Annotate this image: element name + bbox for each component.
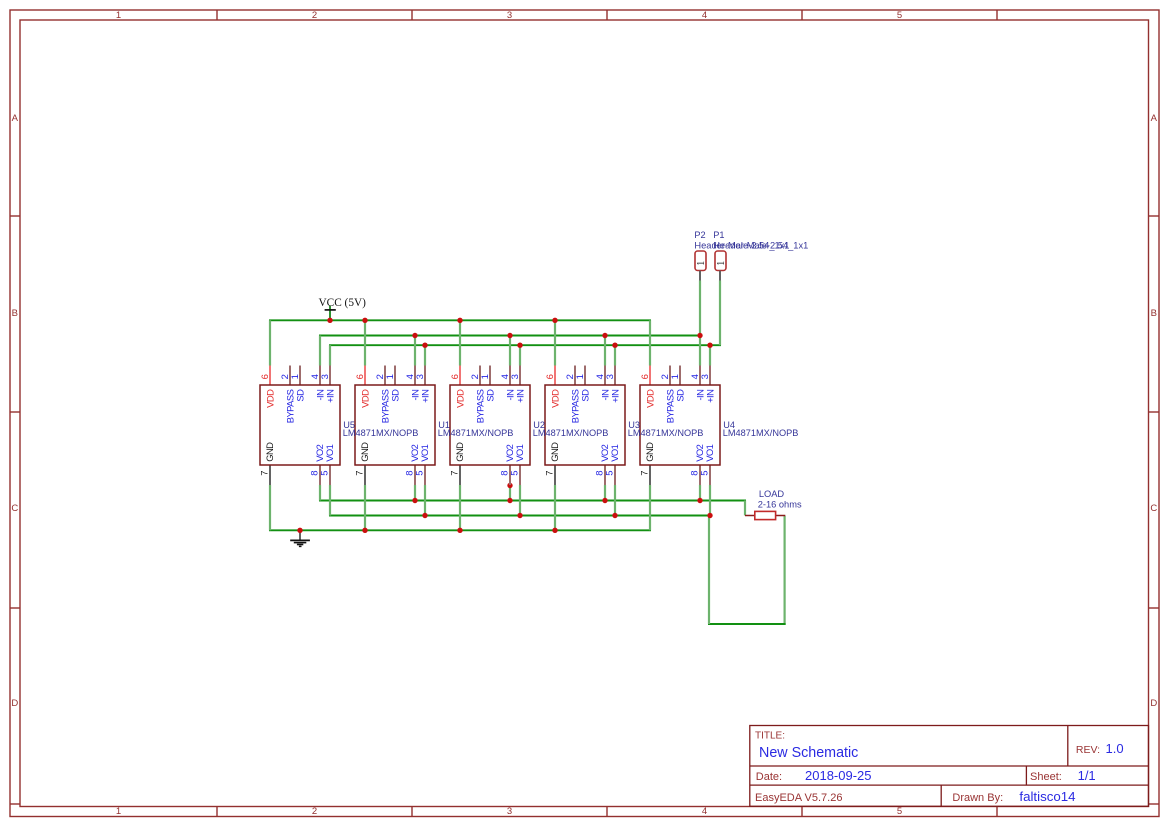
- pin 6 VDD: [260, 374, 275, 408]
- svg-text:5: 5: [897, 806, 902, 817]
- svg-text:7: 7: [639, 471, 650, 476]
- svg-text:+IN: +IN: [609, 390, 620, 403]
- wire -IN drop chip4: [604, 336, 606, 366]
- svg-text:VDD: VDD: [264, 389, 275, 408]
- wire VO1 drop chip1: [329, 485, 331, 516]
- svg-text:A: A: [1151, 113, 1158, 124]
- pin 7 GND: [449, 442, 465, 476]
- pin 7 GND: [259, 442, 275, 476]
- pin 2 BYPASS: [280, 374, 295, 423]
- pin 4 -IN: [690, 374, 705, 400]
- wire +IN drop chip5: [709, 345, 711, 365]
- pin 8 VO2: [689, 444, 705, 475]
- resistor LOAD 2-16 ohms: [745, 489, 802, 520]
- svg-text:6: 6: [260, 374, 271, 379]
- svg-text:D: D: [1150, 698, 1157, 709]
- junction (510,500): [507, 498, 512, 503]
- wire load return up to VO1 rail: [708, 516, 710, 625]
- svg-text:1: 1: [575, 374, 586, 379]
- svg-text:EasyEDA V5.7.26: EasyEDA V5.7.26: [755, 792, 842, 804]
- svg-text:6: 6: [640, 374, 651, 379]
- junction (460,320): [457, 318, 462, 323]
- pin 5 VO1: [604, 444, 620, 475]
- wire VO1 rail: [329, 515, 711, 517]
- svg-text:SD: SD: [294, 389, 305, 402]
- wire GND drop chip5: [649, 485, 651, 530]
- svg-text:LM4871MX/NOPB: LM4871MX/NOPB: [628, 428, 704, 438]
- svg-text:Sheet:: Sheet:: [1030, 771, 1062, 783]
- svg-text:TITLE:: TITLE:: [755, 731, 785, 742]
- junction (710,345): [707, 343, 712, 348]
- pin 1 SD: [385, 374, 400, 402]
- wire -IN drop chip2: [414, 336, 416, 366]
- wire VDD drop chip2: [364, 320, 366, 365]
- svg-text:SD: SD: [674, 389, 685, 402]
- wire VO2 drop chip5: [699, 485, 701, 501]
- svg-text:B: B: [12, 308, 18, 319]
- pin 7 GND: [544, 442, 560, 476]
- svg-text:3: 3: [510, 374, 521, 379]
- svg-text:SD: SD: [484, 389, 495, 402]
- pin 5 VO1: [319, 444, 335, 475]
- wire VDD drop chip5: [649, 320, 651, 365]
- svg-text:5: 5: [414, 471, 425, 476]
- pin 8 VO2: [594, 444, 610, 475]
- pin 1 SD: [575, 374, 590, 402]
- junction (510,336): [507, 333, 512, 338]
- wire header P1 to +IN rail: [719, 281, 721, 346]
- svg-text:2018-09-25: 2018-09-25: [805, 768, 872, 783]
- svg-text:5: 5: [604, 471, 615, 476]
- junction (615,345): [612, 343, 617, 348]
- svg-text:VO1: VO1: [609, 444, 620, 461]
- wire +IN drop chip4: [614, 345, 616, 365]
- svg-text:3: 3: [507, 806, 512, 817]
- junction (300,530): [297, 528, 302, 533]
- pin 5 VO1: [509, 444, 525, 475]
- junction (365,320): [362, 318, 367, 323]
- IC U1 LM4871MX/NOPB: [354, 366, 435, 486]
- pin 2 BYPASS: [470, 374, 485, 423]
- power VCC symbol: [319, 297, 367, 320]
- svg-text:VDD: VDD: [644, 389, 655, 408]
- junction (605,500): [602, 498, 607, 503]
- junction (555,530): [552, 528, 557, 533]
- pin 8 VO2: [404, 444, 420, 475]
- pin 3 +IN: [320, 374, 335, 403]
- svg-text:1: 1: [716, 261, 727, 266]
- svg-text:3: 3: [700, 374, 711, 379]
- pin 3 +IN: [415, 374, 430, 403]
- svg-text:5: 5: [897, 10, 902, 21]
- wire -IN rail: [319, 335, 701, 337]
- wire VDD drop chip4: [554, 320, 556, 365]
- svg-text:1: 1: [116, 10, 121, 21]
- junction (700,500): [697, 498, 702, 503]
- svg-text:REV:: REV:: [1076, 744, 1100, 756]
- pin 2 BYPASS: [375, 374, 390, 423]
- connector P2 Header-Male-2.54_1x1: [694, 230, 789, 281]
- svg-text:1: 1: [480, 374, 491, 379]
- wire VDD drop chip1: [269, 320, 271, 365]
- svg-text:A: A: [12, 113, 19, 124]
- pin 2 BYPASS: [565, 374, 580, 423]
- svg-text:2: 2: [312, 10, 317, 21]
- wire VO2 drop chip2: [414, 485, 416, 501]
- wire GND drop chip4: [554, 485, 556, 530]
- svg-text:5: 5: [319, 471, 330, 476]
- pin 8 VO2: [499, 444, 515, 475]
- pin 6 VDD: [355, 374, 370, 408]
- wire +IN drop chip1: [329, 345, 331, 365]
- junction (330,320): [327, 318, 332, 323]
- svg-text:1: 1: [385, 374, 396, 379]
- svg-text:VDD: VDD: [454, 389, 465, 408]
- svg-text:3: 3: [605, 374, 616, 379]
- svg-text:B: B: [1151, 308, 1157, 319]
- wire VO2 rail to LOAD left: [744, 501, 746, 516]
- junction (510,486): [507, 483, 512, 488]
- svg-text:3: 3: [415, 374, 426, 379]
- wire VO1 drop chip3: [519, 485, 521, 516]
- svg-text:6: 6: [355, 374, 366, 379]
- pin 5 VO1: [414, 444, 430, 475]
- wire VCC rail net VDD: [269, 319, 651, 321]
- wire VO1 drop chip5: [709, 485, 711, 516]
- svg-text:6: 6: [545, 374, 556, 379]
- wire +IN rail: [329, 344, 721, 346]
- svg-text:+IN: +IN: [324, 390, 335, 403]
- svg-text:7: 7: [259, 471, 270, 476]
- ground symbol: [290, 530, 310, 546]
- title block: [750, 726, 1149, 807]
- junction (460,530): [457, 528, 462, 533]
- svg-text:C: C: [11, 503, 18, 514]
- svg-text:New Schematic: New Schematic: [759, 745, 858, 761]
- svg-text:Header-Male-2.54_1x1: Header-Male-2.54_1x1: [713, 241, 808, 251]
- pin 6 VDD: [545, 374, 560, 408]
- pin 7 GND: [354, 442, 370, 476]
- svg-text:GND: GND: [264, 442, 275, 462]
- pin 4 -IN: [310, 374, 325, 400]
- svg-text:VO1: VO1: [324, 444, 335, 461]
- svg-text:C: C: [1150, 503, 1157, 514]
- IC U2 LM4871MX/NOPB: [449, 366, 530, 486]
- svg-text:1: 1: [696, 261, 707, 266]
- svg-text:1: 1: [116, 806, 121, 817]
- svg-text:VO1: VO1: [704, 444, 715, 461]
- wire -IN drop chip1: [319, 336, 321, 366]
- wire VO2 drop chip1: [319, 485, 321, 501]
- wire VO2 rail: [319, 500, 746, 502]
- svg-text:GND: GND: [644, 442, 655, 462]
- svg-text:+IN: +IN: [704, 390, 715, 403]
- svg-text:7: 7: [544, 471, 555, 476]
- junction (425,345): [422, 343, 427, 348]
- wire -IN drop chip5: [699, 336, 701, 366]
- svg-text:7: 7: [354, 471, 365, 476]
- IC U5 LM4871MX/NOPB: [259, 366, 340, 486]
- svg-text:5: 5: [509, 471, 520, 476]
- junction (605,336): [602, 333, 607, 338]
- pin 1 SD: [480, 374, 495, 402]
- junction (520,516): [517, 513, 522, 518]
- svg-text:VO1: VO1: [514, 444, 525, 461]
- pin 5 VO1: [699, 444, 715, 475]
- svg-text:P1: P1: [713, 230, 724, 240]
- svg-text:2: 2: [312, 806, 317, 817]
- svg-text:Date:: Date:: [756, 771, 782, 783]
- svg-text:+IN: +IN: [419, 390, 430, 403]
- wire -IN drop chip3: [509, 336, 511, 366]
- connector P1 Header-Male-2.54_1x1: [713, 230, 808, 281]
- wire load return bottom: [708, 623, 786, 625]
- pin 7 GND: [639, 442, 655, 476]
- svg-text:SD: SD: [389, 389, 400, 402]
- pin 4 -IN: [405, 374, 420, 400]
- junction (710,516): [707, 513, 712, 518]
- pin 3 +IN: [605, 374, 620, 403]
- svg-text:SD: SD: [579, 389, 590, 402]
- svg-text:1: 1: [670, 374, 681, 379]
- junction (615,516): [612, 513, 617, 518]
- svg-text:GND: GND: [359, 442, 370, 462]
- svg-text:1: 1: [290, 374, 301, 379]
- wire GND drop chip2: [364, 485, 366, 530]
- pin 6 VDD: [450, 374, 465, 408]
- wire VO1 drop chip2: [424, 485, 426, 516]
- wire +IN drop chip3: [519, 345, 521, 365]
- pin 8 VO2: [309, 444, 325, 475]
- svg-text:VDD: VDD: [359, 389, 370, 408]
- svg-text:LM4871MX/NOPB: LM4871MX/NOPB: [533, 428, 609, 438]
- junction (425,516): [422, 513, 427, 518]
- pin 1 SD: [670, 374, 685, 402]
- svg-text:4: 4: [702, 10, 707, 21]
- svg-text:GND: GND: [549, 442, 560, 462]
- pin 2 BYPASS: [660, 374, 675, 423]
- svg-text:Drawn By:: Drawn By:: [952, 792, 1003, 804]
- svg-text:4: 4: [702, 806, 707, 817]
- svg-text:GND: GND: [454, 442, 465, 462]
- svg-text:1/1: 1/1: [1078, 768, 1096, 783]
- svg-text:3: 3: [320, 374, 331, 379]
- svg-text:1.0: 1.0: [1106, 741, 1124, 756]
- junction (415,500): [412, 498, 417, 503]
- wire GND drop chip1: [269, 485, 271, 530]
- junction (365,530): [362, 528, 367, 533]
- wire GND drop chip3: [459, 485, 461, 530]
- wire header P2 to -IN rail: [699, 281, 701, 336]
- wire LOAD right down: [783, 516, 785, 625]
- svg-text:5: 5: [699, 471, 710, 476]
- svg-text:VCC (5V): VCC (5V): [319, 297, 367, 309]
- pin 3 +IN: [510, 374, 525, 403]
- svg-text:LOAD: LOAD: [759, 489, 785, 499]
- wire VDD drop chip3: [459, 320, 461, 365]
- svg-text:LM4871MX/NOPB: LM4871MX/NOPB: [723, 428, 799, 438]
- svg-text:VDD: VDD: [549, 389, 560, 408]
- pin 1 SD: [290, 374, 305, 402]
- pin 6 VDD: [640, 374, 655, 408]
- svg-text:3: 3: [507, 10, 512, 21]
- svg-text:7: 7: [449, 471, 460, 476]
- svg-text:VO1: VO1: [419, 444, 430, 461]
- svg-text:LM4871MX/NOPB: LM4871MX/NOPB: [438, 428, 514, 438]
- junction (700,336): [697, 333, 702, 338]
- wire VO2 drop chip3: [509, 485, 511, 501]
- IC U3 LM4871MX/NOPB: [544, 366, 625, 486]
- svg-text:LM4871MX/NOPB: LM4871MX/NOPB: [343, 428, 419, 438]
- pin 3 +IN: [700, 374, 715, 403]
- junction (555,320): [552, 318, 557, 323]
- svg-text:faltisco14: faltisco14: [1019, 789, 1075, 804]
- wire GND rail: [269, 529, 651, 531]
- svg-text:6: 6: [450, 374, 461, 379]
- svg-text:P2: P2: [694, 230, 705, 240]
- pin 4 -IN: [500, 374, 515, 400]
- svg-text:+IN: +IN: [514, 390, 525, 403]
- svg-text:D: D: [11, 698, 18, 709]
- junction (520,345): [517, 343, 522, 348]
- wire +IN drop chip2: [424, 345, 426, 365]
- wire VO2 drop chip4: [604, 485, 606, 501]
- IC U4 LM4871MX/NOPB: [639, 366, 720, 486]
- junction (415,336): [412, 333, 417, 338]
- wire VO1 drop chip4: [614, 485, 616, 516]
- pin 4 -IN: [595, 374, 610, 400]
- svg-text:2-16 ohms: 2-16 ohms: [758, 500, 802, 510]
